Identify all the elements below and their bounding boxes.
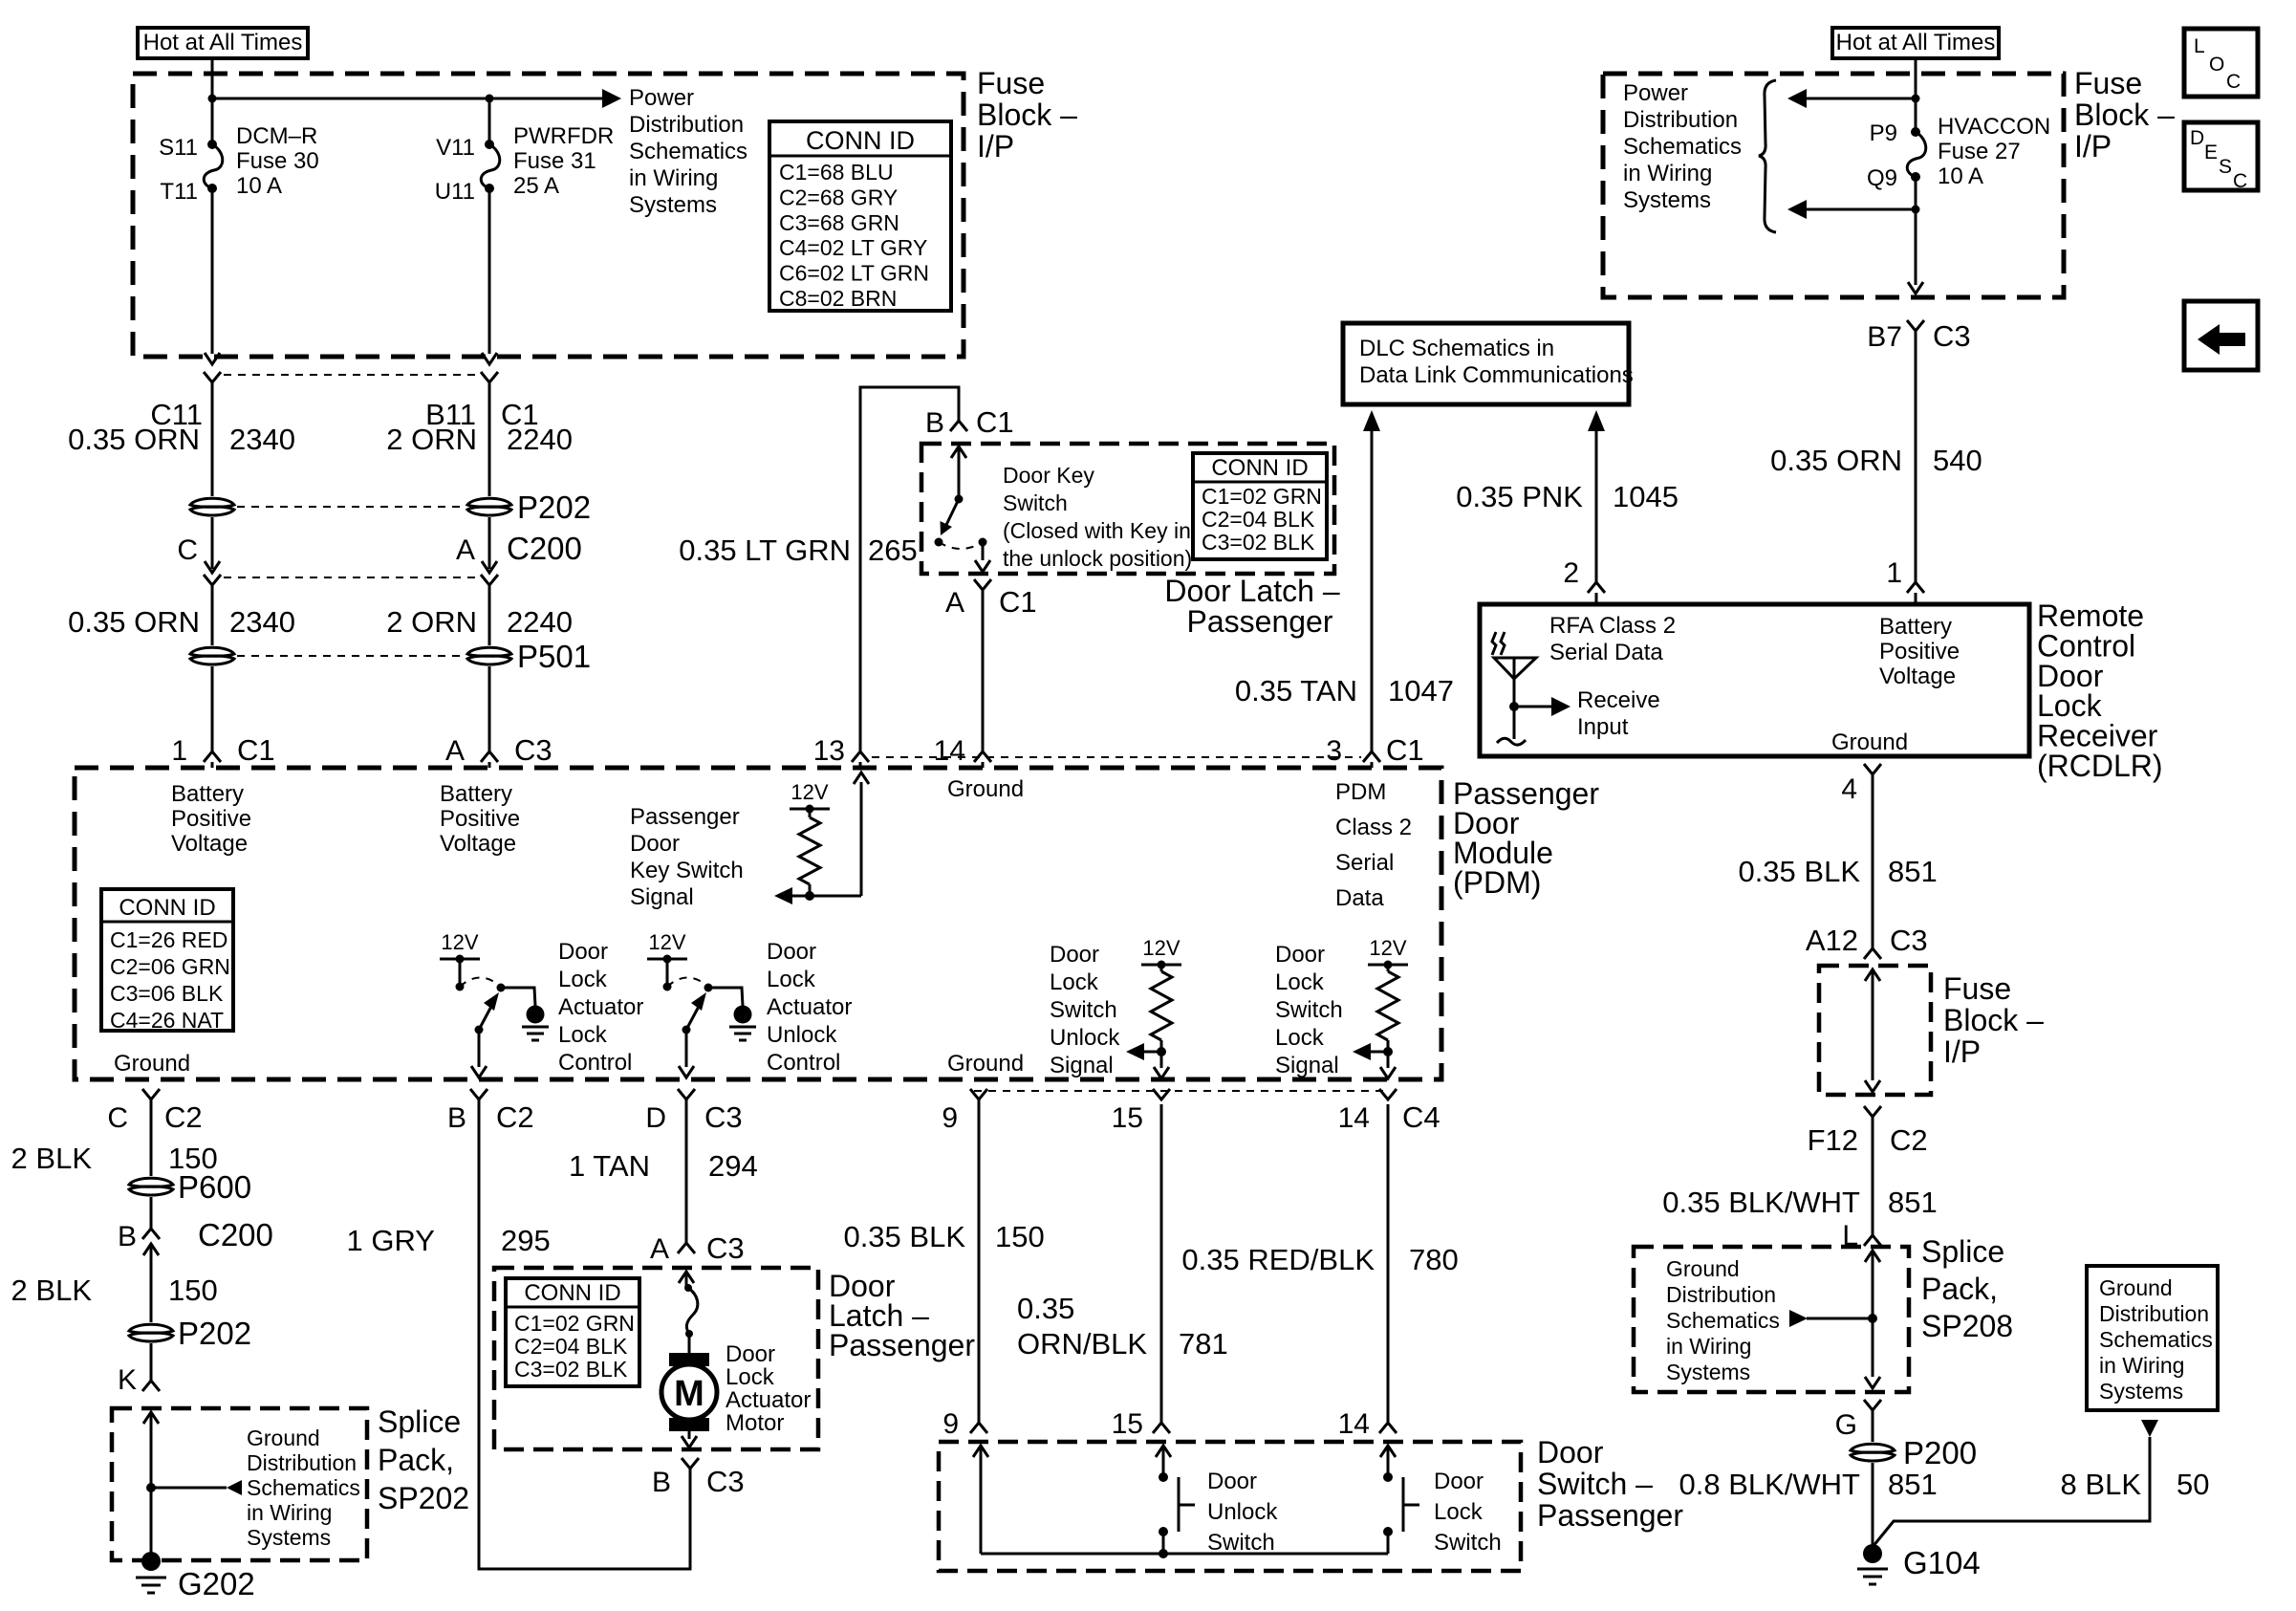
svg-text:in Wiring: in Wiring [2099,1353,2184,1378]
LOC box [2184,29,2258,97]
svg-text:Hot at All Times: Hot at All Times [1836,30,1996,55]
svg-text:2340: 2340 [229,605,295,639]
svg-text:SP208: SP208 [1921,1309,2013,1343]
svg-text:13: 13 [813,735,845,767]
svg-text:14: 14 [1338,1102,1370,1134]
svg-text:Battery: Battery [1879,614,1952,640]
svg-text:C3=02 BLK: C3=02 BLK [1202,530,1315,555]
svg-text:RFA Class 2: RFA Class 2 [1549,613,1676,639]
svg-text:12V: 12V [648,930,685,954]
svg-text:Schematics: Schematics [247,1475,360,1500]
svg-text:in Wiring: in Wiring [247,1500,332,1525]
svg-text:C3: C3 [1890,924,1928,957]
svg-text:C1=02 GRN: C1=02 GRN [514,1311,635,1336]
svg-text:Signal: Signal [1050,1053,1114,1078]
svg-text:G: G [1835,1409,1857,1441]
svg-text:Ground: Ground [1666,1256,1740,1281]
junction box: Hot at All Times (right) [1832,28,1999,58]
svg-text:C4: C4 [1402,1100,1440,1134]
svg-text:in Wiring: in Wiring [1666,1334,1751,1359]
wire 2 ORN 2240 (upper) [386,382,573,496]
svg-text:Switch –: Switch – [1537,1467,1653,1501]
svg-text:25 A: 25 A [513,173,559,199]
svg-text:Lock: Lock [767,967,816,992]
svg-text:Voltage: Voltage [440,831,516,857]
svg-text:DLC Schematics in: DLC Schematics in [1359,336,1554,361]
CONN ID table (fuse block left) [769,121,951,311]
wire: battery feed bus [208,58,622,144]
svg-text:P600: P600 [178,1169,251,1205]
svg-text:C4=26 NAT: C4=26 NAT [110,1008,224,1033]
svg-text:Motor: Motor [726,1410,784,1436]
wire 0.35 RED/BLK 780 (pin14) [1181,1104,1458,1440]
labels inside RCDLR [1549,613,1960,755]
svg-text:2 BLK: 2 BLK [11,1142,93,1175]
svg-text:2340: 2340 [229,423,295,456]
labels: P9 Q9 / HVACCON Fuse 27 10 A [1867,114,2050,191]
wire 2 BLK 150 (lower) [11,1274,218,1307]
inline connector P202 pair [190,490,591,525]
svg-text:the unlock position): the unlock position) [1003,546,1192,571]
svg-text:CONN ID: CONN ID [524,1280,620,1306]
svg-text:DCM–R: DCM–R [236,123,317,149]
svg-text:Unlock: Unlock [767,1022,837,1048]
passenger door module dashed box [75,768,1441,1079]
svg-text:Lock: Lock [1434,1499,1484,1525]
wires into PDM pins 1 and A [171,666,274,768]
svg-text:P501: P501 [517,639,591,674]
svg-text:Power: Power [1623,80,1688,106]
wire: pin13 to door key switch B (0.35 LT GRN 265) [679,387,959,751]
svg-text:B: B [652,1467,671,1498]
svg-text:in Wiring: in Wiring [1623,161,1712,186]
door lock switch unlock signal resistor [1126,936,1181,1078]
svg-text:L: L [2194,35,2205,57]
labels: S11 T11 / DCM-R Fuse 30 10 A [159,123,319,205]
svg-text:C: C [2226,71,2241,93]
DESC box [2184,122,2258,192]
wire 0.35 ORN 540 [1770,331,1982,604]
wire 0.35 ORN 2340 (upper) [68,382,295,496]
svg-text:Systems: Systems [1666,1360,1750,1384]
curly brace [1759,80,1776,232]
svg-text:(Closed with Key in: (Closed with Key in [1003,518,1191,543]
door lock actuator lock control switch [440,930,549,1078]
svg-text:C1=68 BLU: C1=68 BLU [779,160,894,185]
svg-text:C4=02 LT GRY: C4=02 LT GRY [779,235,927,260]
svg-text:Fuse 31: Fuse 31 [513,148,596,174]
labels: V11 U11 / PWRFDR Fuse 31 25 A [435,123,615,205]
connector B C3 (door latch) [652,1458,745,1498]
svg-text:Data Link Communications: Data Link Communications [1359,362,1634,388]
svg-text:G104: G104 [1903,1545,1981,1580]
svg-text:I/P: I/P [1943,1034,1981,1069]
svg-text:Control: Control [558,1050,632,1076]
svg-text:Data: Data [1335,885,1384,911]
svg-text:HVACCON: HVACCON [1938,114,2050,140]
RCDLR pin 4 [1841,764,1881,948]
svg-text:2 ORN: 2 ORN [386,423,477,456]
svg-text:1047: 1047 [1388,674,1454,708]
svg-text:150: 150 [995,1220,1045,1253]
svg-text:C1: C1 [999,585,1037,619]
svg-text:Ground: Ground [947,1051,1024,1077]
connector C200 (B) [118,1197,273,1322]
fuse F27 HVACCON [1787,127,1926,294]
svg-text:Ground: Ground [947,776,1024,802]
svg-text:Switch: Switch [1050,997,1117,1023]
svg-text:B7: B7 [1867,321,1902,353]
svg-text:A: A [456,534,475,566]
svg-text:PDM: PDM [1335,779,1386,805]
svg-text:S11: S11 [159,135,198,161]
svg-text:Block –: Block – [977,98,1077,132]
svg-text:B: B [447,1102,466,1134]
svg-text:C3=68 GRN: C3=68 GRN [779,210,899,235]
svg-text:4: 4 [1841,773,1857,805]
svg-text:851: 851 [1888,1468,1938,1501]
inline connector P202 (lower) [129,1316,251,1351]
svg-text:C1: C1 [1386,733,1424,767]
svg-text:Block –: Block – [1943,1003,2044,1037]
svg-text:A: A [445,735,465,767]
svg-text:0.35 LT GRN: 0.35 LT GRN [679,533,851,567]
svg-text:C: C [177,534,198,566]
svg-text:Actuator: Actuator [558,994,643,1020]
svg-text:Switch: Switch [1434,1530,1502,1556]
svg-text:C3: C3 [1933,319,1971,353]
svg-text:C3: C3 [704,1100,743,1134]
door lock actuator unlock control switch [647,930,756,1078]
svg-text:3: 3 [1326,735,1342,767]
fuse block I/P dashed box (left) [133,74,964,357]
svg-text:Lock: Lock [1275,969,1325,995]
svg-text:B: B [925,407,944,439]
svg-text:15: 15 [1112,1102,1143,1134]
svg-text:Door Key: Door Key [1003,463,1094,488]
svg-text:Control: Control [767,1050,840,1076]
svg-text:0.35 BLK: 0.35 BLK [843,1220,965,1253]
ground distribution schematics box (right) [2087,1266,2218,1410]
svg-text:M: M [674,1374,704,1414]
svg-text:Door: Door [1050,942,1099,968]
wire 0.35 ORN/BLK 781 (pin15) [1017,1104,1228,1440]
svg-text:12V: 12V [1369,936,1406,960]
svg-text:C: C [107,1102,128,1134]
door lock switch [1380,1446,1419,1554]
svg-text:Lock: Lock [1275,1025,1325,1051]
svg-text:C6=02 LT GRN: C6=02 LT GRN [779,261,929,286]
fuse F31 PWRFDR [481,98,500,364]
svg-text:Signal: Signal [630,884,694,910]
svg-text:C8=02 BRN: C8=02 BRN [779,286,897,311]
inline connector P501 pair [190,639,591,674]
svg-text:K: K [118,1364,137,1396]
CONN ID table (door latch) [506,1278,639,1386]
door latch dashed box [494,1268,818,1449]
svg-text:C3: C3 [706,1465,745,1498]
connector K [118,1343,160,1396]
svg-text:Fuse: Fuse [977,66,1045,100]
svg-text:Distribution: Distribution [247,1450,357,1475]
svg-text:Pack,: Pack, [378,1443,454,1477]
svg-text:Passenger: Passenger [829,1328,975,1362]
svg-text:0.35 ORN: 0.35 ORN [68,423,200,456]
svg-text:Door: Door [767,939,816,965]
svg-text:294: 294 [708,1149,758,1183]
svg-text:S: S [2219,156,2232,178]
svg-text:15: 15 [1112,1408,1143,1440]
svg-text:C1=02 GRN: C1=02 GRN [1202,484,1322,509]
svg-text:Door Latch –: Door Latch – [1164,574,1339,608]
svg-text:8 BLK: 8 BLK [2061,1468,2142,1501]
svg-text:265: 265 [868,533,918,567]
svg-text:Q9: Q9 [1867,165,1897,191]
wire 0.35 BLK/WHT 851 [1662,1186,1937,1252]
svg-text:Distribution: Distribution [2099,1301,2209,1326]
connector A12 C3 [1806,924,1928,959]
svg-text:Door: Door [1434,1469,1484,1494]
labels: PDM bottom pins C C2 / B C2 / D C3 / 9 / 15 / 14 C4 [107,1100,1440,1134]
wire 0.35 ORN 2340 (lower) [68,585,295,645]
svg-text:Splice: Splice [378,1404,461,1439]
svg-text:Lock: Lock [1050,969,1099,995]
fuse block I/P dashed box (right) [1603,74,2064,297]
svg-text:Passenger: Passenger [630,804,740,830]
svg-text:CONN ID: CONN ID [806,126,915,155]
svg-text:Fuse 27: Fuse 27 [1938,139,2021,164]
connector B7 C3 [1867,319,1970,353]
svg-text:Door: Door [726,1341,775,1367]
connector C200 [177,517,582,585]
connector A C3 (door latch) [650,1231,745,1265]
svg-text:2240: 2240 [507,605,573,639]
svg-text:C3=02 BLK: C3=02 BLK [514,1357,628,1382]
svg-text:Ground: Ground [1831,729,1908,755]
svg-text:C200: C200 [507,531,582,566]
svg-text:Passenger: Passenger [1537,1498,1683,1533]
svg-text:Lock: Lock [558,1022,608,1048]
svg-text:Positive: Positive [1879,639,1960,664]
svg-text:C200: C200 [198,1217,273,1252]
svg-text:851: 851 [1888,1186,1938,1219]
svg-text:2 BLK: 2 BLK [11,1274,93,1307]
wire 2 ORN 2240 (lower) [386,585,573,645]
svg-text:(RCDLR): (RCDLR) [2037,749,2163,783]
svg-text:CONN ID: CONN ID [1211,455,1308,481]
svg-text:G202: G202 [178,1566,255,1601]
svg-text:F12: F12 [1808,1123,1858,1157]
svg-text:C3: C3 [706,1231,745,1265]
svg-text:Unlock: Unlock [1050,1025,1120,1051]
ground G202 [136,1552,255,1601]
svg-text:Actuator: Actuator [726,1387,811,1413]
svg-text:P200: P200 [1903,1435,1977,1470]
svg-text:C2: C2 [496,1100,534,1134]
svg-text:Block –: Block – [2074,98,2175,132]
door key switch [935,446,991,572]
svg-text:C1: C1 [237,733,275,767]
svg-text:SP202: SP202 [378,1481,469,1515]
svg-text:780: 780 [1409,1243,1459,1276]
svg-text:D: D [645,1102,666,1134]
wire 1 TAN 294 (D to door latch A) [569,1099,758,1243]
svg-text:Battery: Battery [171,781,244,807]
svg-text:0.35: 0.35 [1017,1292,1074,1325]
svg-text:0.35 ORN: 0.35 ORN [68,605,200,639]
svg-text:Ground: Ground [114,1051,190,1077]
svg-text:C: C [2233,170,2247,192]
connector G / P200 [1835,1400,1977,1470]
svg-text:Key Switch: Key Switch [630,858,744,883]
svg-text:in Wiring: in Wiring [629,165,718,191]
svg-text:Fuse: Fuse [2074,66,2142,100]
svg-text:V11: V11 [436,135,475,161]
svg-text:C3=06 BLK: C3=06 BLK [110,981,224,1006]
svg-text:1: 1 [171,735,187,767]
svg-text:10 A: 10 A [1938,163,1983,189]
svg-text:Door: Door [558,939,608,965]
svg-text:9: 9 [942,1102,958,1134]
svg-text:I/P: I/P [2074,129,2112,163]
svg-text:Voltage: Voltage [171,831,248,857]
fuse block I/P small dashed box [1819,966,1931,1095]
svg-text:C1: C1 [976,405,1014,439]
wire 0.35 BLK 150 (pin9) [843,1099,1044,1440]
svg-text:2 ORN: 2 ORN [386,605,477,639]
svg-text:U11: U11 [435,179,475,205]
door switch dashed box [939,1442,1521,1571]
svg-text:2: 2 [1563,557,1579,589]
svg-text:1 TAN: 1 TAN [569,1149,650,1183]
CONN ID table (PDM) [101,889,233,1033]
door key switch dashed box [921,444,1334,574]
svg-text:12V: 12V [441,930,478,954]
svg-text:Door: Door [630,831,680,857]
svg-text:P202: P202 [178,1316,251,1351]
svg-text:Pack,: Pack, [1921,1272,1998,1306]
svg-text:Switch: Switch [1275,997,1343,1023]
svg-text:Systems: Systems [1623,187,1711,213]
svg-text:E: E [2204,142,2218,163]
svg-text:P9: P9 [1870,120,1897,146]
svg-text:Class 2: Class 2 [1335,815,1412,840]
svg-text:ORN/BLK: ORN/BLK [1017,1327,1147,1361]
svg-text:Switch: Switch [1207,1530,1275,1556]
svg-text:O: O [2209,54,2224,76]
labels: C11 / B11 C1 [150,398,538,431]
svg-text:150: 150 [168,1274,218,1307]
svg-text:A: A [945,587,964,619]
ground G104 [1857,1544,1981,1584]
CONN ID table (door key switch) [1193,453,1327,559]
svg-text:Positive: Positive [440,806,520,832]
svg-text:Switch: Switch [1003,490,1068,515]
connector C11 [204,372,498,382]
svg-text:12V: 12V [1142,936,1180,960]
svg-text:Power: Power [629,85,694,111]
svg-text:C2=06 GRN: C2=06 GRN [110,954,230,979]
internal resistor for key switch signal (12V pullup) [774,773,869,904]
svg-text:0.35 BLK: 0.35 BLK [1738,855,1860,888]
svg-text:Voltage: Voltage [1879,664,1956,689]
svg-text:10 A: 10 A [236,173,282,199]
svg-text:0.35 TAN: 0.35 TAN [1235,674,1357,708]
svg-text:C3: C3 [514,733,552,767]
svg-text:1 GRY: 1 GRY [347,1224,435,1257]
svg-text:540: 540 [1933,444,1982,477]
svg-text:Fuse: Fuse [1943,971,2011,1006]
svg-text:C2=04 BLK: C2=04 BLK [514,1334,628,1359]
DLC Schematics box [1343,323,1634,404]
svg-text:0.8 BLK/WHT: 0.8 BLK/WHT [1679,1468,1861,1501]
svg-text:Fuse 30: Fuse 30 [236,148,319,174]
svg-text:C2=04 BLK: C2=04 BLK [1202,507,1315,532]
svg-text:C2=68 GRY: C2=68 GRY [779,185,898,209]
PDM bottom connector pins [142,1089,1397,1099]
svg-text:Systems: Systems [247,1525,331,1550]
thin dashed connector line PDM top (C1) [872,756,1361,758]
svg-text:Actuator: Actuator [767,994,852,1020]
wire: 0.35 PNK 1045 from RCDLR pin2 to DLC [1456,410,1679,604]
svg-text:50: 50 [2177,1468,2209,1501]
door lock actuator motor [661,1272,717,1448]
wire 1 GRY 295 (B to door latch B) [347,1099,690,1569]
svg-text:P202: P202 [517,490,591,525]
antenna symbol [1492,632,1570,745]
wire+arrows: HVACCON feed [1787,58,1920,132]
svg-text:Lock: Lock [726,1364,775,1390]
svg-text:Positive: Positive [171,806,251,832]
svg-text:Lock: Lock [558,967,608,992]
connector pin 13 fork [852,751,869,768]
svg-text:Input: Input [1577,714,1629,740]
svg-text:14: 14 [1338,1408,1370,1440]
PDM ground labels [114,776,1024,1077]
door lock switch lock signal resistor [1353,936,1408,1078]
wire: 0.35 TAN 1047 from PDM pin3 to DLC [1235,410,1454,768]
svg-text:1: 1 [1886,557,1902,589]
svg-text:Serial Data: Serial Data [1549,640,1663,665]
svg-text:Door: Door [1275,942,1325,968]
svg-text:Receive: Receive [1577,687,1660,713]
back-arrow box [2184,301,2258,370]
door switch ground leg (pin9) [973,1446,1388,1558]
svg-text:0.35 ORN: 0.35 ORN [1770,444,1902,477]
splice pack SP202 dashed box [112,1408,367,1560]
svg-text:0.35 RED/BLK: 0.35 RED/BLK [1181,1243,1375,1276]
svg-text:B: B [118,1221,137,1252]
svg-text:0.35 BLK/WHT: 0.35 BLK/WHT [1662,1186,1860,1219]
svg-text:Ground: Ground [2099,1275,2173,1300]
wire 0.8 BLK/WHT 851 to G104 [1679,1463,1938,1554]
fuse F30 DCM-R [204,140,223,364]
svg-text:Distribution: Distribution [629,112,744,138]
wire 2 BLK 150 (upper) [11,1099,218,1176]
svg-text:Signal: Signal [1275,1053,1339,1078]
svg-text:781: 781 [1179,1327,1228,1361]
svg-text:C1=26 RED: C1=26 RED [110,927,227,952]
svg-text:Splice: Splice [1921,1234,2004,1269]
door unlock switch [1156,1446,1195,1554]
svg-text:295: 295 [501,1224,551,1257]
svg-text:Schematics: Schematics [1666,1308,1780,1333]
svg-text:Systems: Systems [629,192,717,218]
svg-text:Door: Door [1207,1469,1257,1494]
svg-text:1045: 1045 [1613,480,1679,513]
svg-text:A12: A12 [1806,924,1858,957]
svg-text:851: 851 [1888,855,1938,888]
